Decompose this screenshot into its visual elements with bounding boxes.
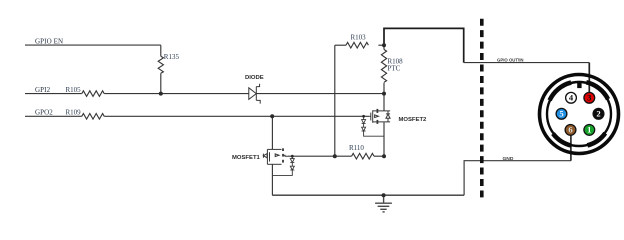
mosfet M2 source down to R110 junction	[383, 122, 385, 156]
connector pin 3	[584, 92, 595, 103]
connector pin 2	[593, 108, 604, 119]
wire diode to R108 junction	[256, 93, 384, 95]
svg-text:GPI2: GPI2	[35, 86, 51, 94]
connector pin 6	[565, 124, 576, 135]
wire junction R103/R108 up	[383, 45, 385, 49]
wire R110 left to junction x335	[335, 155, 352, 157]
svg-text:1: 1	[587, 125, 591, 135]
ground symbol	[375, 195, 392, 212]
resistor R103	[346, 42, 368, 48]
wire GPIO_EN horizontal	[25, 44, 161, 46]
svg-text:GPO2: GPO2	[35, 109, 53, 117]
mosfet M2 drain wire	[383, 94, 385, 111]
connector pin 5	[556, 108, 567, 119]
connector pin 1	[584, 124, 595, 135]
wire MOSFET1 gate vertical	[271, 116, 273, 149]
connector keyway notch	[577, 81, 581, 88]
resistor R110	[352, 153, 374, 159]
wire GPIO OUT/IN to connector pin3	[464, 62, 590, 64]
svg-text:GPIO OUT/IN: GPIO OUT/IN	[497, 58, 524, 63]
wire R109 to MOSFET2 gate	[104, 115, 369, 117]
svg-text:2: 2	[596, 109, 600, 119]
svg-text:R105: R105	[66, 86, 82, 94]
transistor MOSFET2	[369, 109, 390, 124]
dashed separator line	[480, 19, 484, 198]
connector J1	[540, 75, 619, 154]
wire bottom rail	[272, 194, 464, 196]
svg-text:3: 3	[587, 93, 591, 103]
svg-text:R135: R135	[164, 53, 180, 61]
svg-text:MOSFET1: MOSFET1	[232, 155, 261, 161]
svg-text:GND: GND	[503, 156, 514, 162]
connector shell arc bottom-left	[553, 134, 571, 146]
mosfet M1 gate-source zener stack	[272, 156, 294, 175]
connector shell arc top-left	[550, 83, 572, 101]
wire R103 left to vertical	[335, 44, 346, 46]
svg-text:DIODE: DIODE	[245, 75, 264, 81]
resistor R135	[158, 56, 163, 73]
wire R105 to diode	[104, 93, 249, 95]
wire GND riser	[464, 161, 571, 196]
resistor R105	[82, 91, 104, 97]
transistor MOSFET1	[263, 148, 288, 164]
wire GPIO_EN vertical to R135	[160, 45, 162, 56]
wire R135 bottom to GPI2 line	[160, 73, 162, 93]
mosfet M2 gate-source zener stack	[362, 116, 384, 136]
connector pin 4	[566, 92, 577, 103]
svg-text:MOSFET2: MOSFET2	[399, 117, 428, 123]
resistor R108 PTC vertical	[381, 50, 386, 83]
svg-text:GPIO EN: GPIO EN	[35, 38, 63, 46]
svg-text:4: 4	[569, 93, 574, 103]
wire GPO2 lead-in	[25, 115, 82, 117]
wire R108 bottom to GPI2 diode line	[383, 83, 385, 94]
wire GPI2 lead-in	[25, 93, 82, 95]
resistor R109	[82, 114, 104, 120]
connector inner ring	[547, 82, 611, 146]
svg-text:R109: R109	[66, 109, 82, 117]
connector shell arc top-right	[586, 82, 608, 99]
wire M1 source down to bottom rail	[271, 164, 273, 195]
wire top black: junction up, right, down, to GPIO OUT/IN	[384, 28, 464, 62]
wire pin6 drop	[570, 135, 572, 161]
wire R110 right to M2 line	[374, 155, 384, 157]
svg-text:R110: R110	[349, 144, 364, 152]
junction dots	[159, 43, 386, 197]
svg-text:6: 6	[568, 125, 573, 135]
wire vertical x335 R103-left down to R110-left	[334, 45, 336, 156]
connector outer ring	[540, 75, 619, 154]
wire R103 right to junction	[378, 44, 384, 46]
diode D1 (TVS)	[249, 84, 260, 104]
svg-text:5: 5	[559, 109, 563, 119]
svg-text:PTC: PTC	[388, 65, 401, 73]
svg-text:R103: R103	[351, 34, 367, 42]
wire MOSFET1 drain to junction	[288, 155, 335, 157]
connector shell arc bottom-right	[587, 133, 605, 145]
